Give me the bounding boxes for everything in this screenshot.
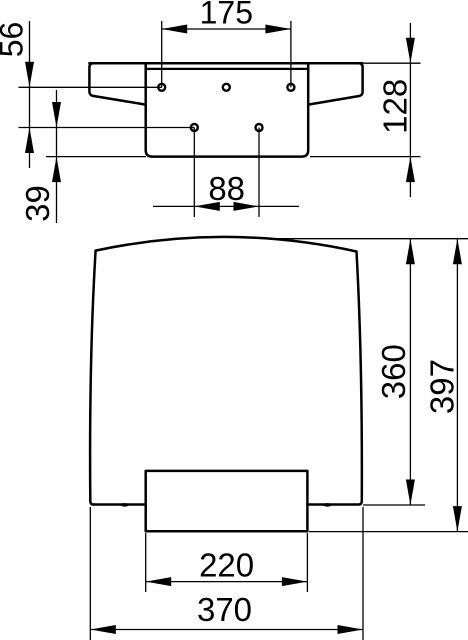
arrow up (406, 157, 415, 183)
arrow right (338, 625, 364, 634)
hole top-left (158, 84, 165, 91)
extension line right (306, 533, 308, 592)
dimension line (153, 205, 299, 207)
svg-text:397: 397 (424, 359, 461, 414)
arrow up (52, 157, 61, 183)
svg-text:220: 220 (199, 547, 254, 584)
arrow right (234, 202, 260, 211)
arrow down (406, 38, 415, 64)
arrow down (406, 480, 415, 506)
extension line right (290, 21, 292, 87)
dimension line (409, 23, 411, 197)
right wing (308, 63, 362, 104)
dimension line (409, 239, 411, 505)
extension line left (193, 128, 195, 218)
extension line left (145, 533, 147, 592)
left wing (89, 63, 145, 104)
extension line bottom (309, 531, 468, 533)
arrow up (406, 239, 415, 265)
extension line top (364, 62, 421, 64)
arrow left (146, 577, 172, 586)
extension line left (161, 21, 163, 87)
dimension line (56, 90, 58, 223)
svg-text:175: 175 (200, 0, 253, 31)
extension line bottom (310, 156, 421, 158)
arrow right (265, 25, 291, 34)
arrow left (194, 202, 220, 211)
dimension line (162, 28, 291, 30)
extension line holes row1 (19, 86, 162, 88)
extension line bottom (363, 504, 425, 506)
hole top-middle (223, 84, 230, 91)
extension line right (362, 507, 364, 640)
arrow down (25, 62, 34, 88)
svg-text:370: 370 (197, 591, 252, 628)
bracket fold line (146, 68, 309, 70)
svg-text:56: 56 (0, 22, 29, 58)
hole lower-left (191, 124, 198, 131)
arrow right (282, 577, 308, 586)
arrow down (52, 102, 61, 128)
dimension line (456, 239, 458, 532)
hole top-right (287, 84, 294, 91)
bracket body plate (146, 63, 309, 156)
hole lower-right (256, 124, 263, 131)
extension line right (258, 128, 260, 218)
svg-text:360: 360 (375, 344, 412, 399)
extension line plate bottom (46, 156, 146, 158)
bracket top edge (89, 62, 362, 65)
arrow down (453, 506, 462, 531)
dimension line (146, 581, 308, 583)
extension line holes row2 (19, 127, 195, 129)
seat flip front panel (146, 471, 308, 531)
seat outline (90, 237, 362, 505)
foot left (121, 503, 129, 507)
arrow up (25, 128, 34, 154)
arrow up (453, 239, 462, 265)
svg-text:128: 128 (377, 79, 414, 134)
foot right (323, 503, 331, 507)
svg-text:88: 88 (208, 170, 245, 207)
dimension line (29, 21, 31, 168)
extension line top (shared with 397) (270, 238, 468, 240)
arrow left (90, 625, 116, 634)
extension line left (89, 507, 91, 640)
dimension line (90, 629, 363, 631)
arrow left (162, 25, 188, 34)
svg-text:39: 39 (19, 185, 56, 222)
